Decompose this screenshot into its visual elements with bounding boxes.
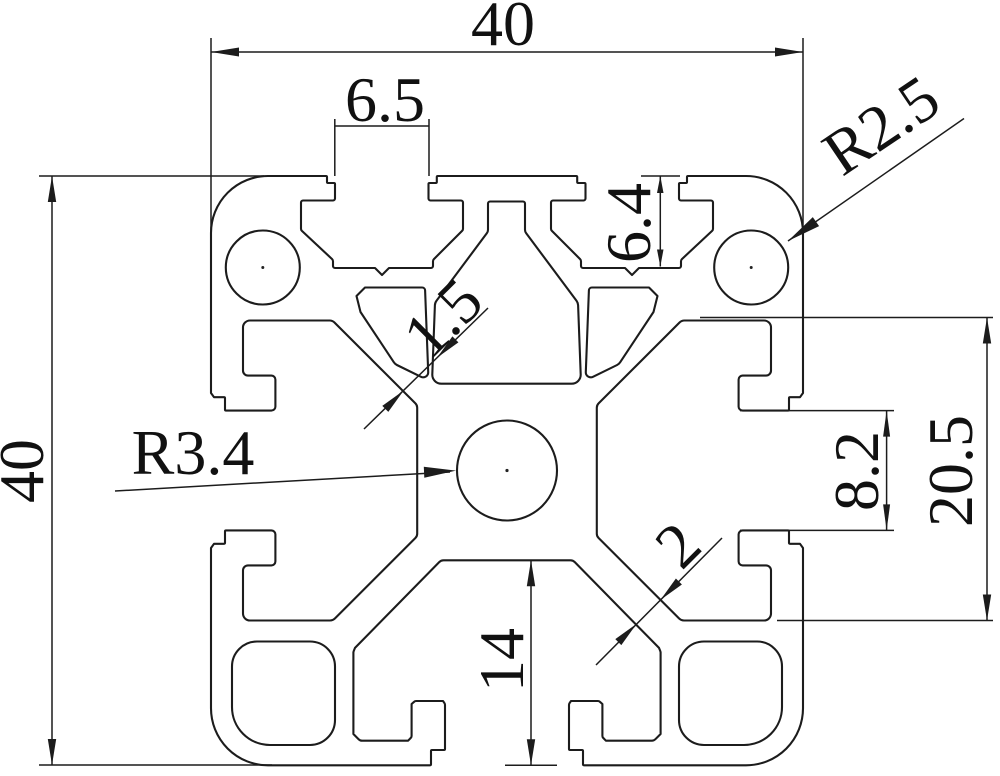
bottom-right corner square cavity [679, 642, 782, 746]
NE fin cavity [586, 287, 658, 377]
dim 6.4: dimension line [659, 176, 661, 267]
dim 40 left: dimension line [51, 176, 53, 765]
N cavity [432, 202, 580, 384]
dim 40 top: extension lines [211, 38, 803, 233]
dim 6.4: top tail line [641, 175, 680, 177]
dim 20.5: extension lines [700, 318, 993, 621]
leader R3.4 [115, 472, 450, 491]
svg-text:6.4: 6.4 [593, 183, 664, 263]
leader 2 thickness dim [596, 538, 722, 665]
svg-text:R3.4: R3.4 [132, 417, 255, 488]
leader 1.5 thickness dim [364, 308, 488, 429]
dim 14: dimension line [505, 560, 557, 765]
top-right corner hole R2.5 [714, 231, 788, 305]
svg-text:40: 40 [0, 439, 57, 503]
dim 6.5: dimension line [335, 125, 429, 127]
bottom-left corner square cavity [232, 642, 335, 746]
dim 8.2: extension lines [740, 411, 894, 531]
svg-text:8.2: 8.2 [821, 431, 892, 511]
svg-text:14: 14 [466, 628, 537, 692]
leader R2.5 [788, 119, 964, 242]
dim 40 left: extension lines [39, 176, 272, 765]
dim 20.5: dimension line [986, 318, 988, 621]
profile outer outline with slots [211, 176, 803, 765]
top-left corner hole R2.5 [226, 231, 300, 305]
svg-text:40: 40 [471, 0, 535, 59]
svg-text:6.5: 6.5 [345, 64, 425, 135]
center bore R3.4 [457, 421, 557, 521]
dim 8.2: dimension line [886, 411, 888, 531]
svg-text:20.5: 20.5 [915, 415, 986, 527]
dim 6.5: extension lines [335, 119, 429, 176]
NW fin cavity [357, 288, 429, 378]
dim 40 top: dimension line [211, 51, 803, 53]
